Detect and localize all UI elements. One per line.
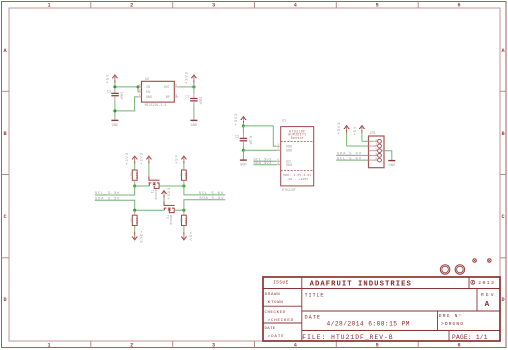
svg-text:U2: U2	[145, 78, 149, 82]
supply +3V3 arrow (JP1)	[338, 122, 349, 146]
wire SDA_5.0V	[184, 200, 225, 210]
svg-text:U1: U1	[282, 120, 286, 124]
supply +3V3 arrow (reg out)	[186, 71, 197, 86]
transistor Q1 BSS138	[149, 176, 160, 188]
wire VDD	[243, 126, 276, 146]
supply +5V arrow	[106, 74, 118, 84]
svg-text:>DATE: >DATE	[268, 334, 285, 339]
ground symbol (sensor)	[240, 150, 247, 167]
supply +5V arrow down (R4 bottom)	[181, 226, 191, 242]
svg-text:TITLE: TITLE	[305, 292, 324, 298]
svg-text:3: 3	[212, 3, 215, 9]
svg-text:5: 5	[376, 343, 379, 349]
capacitor C2	[185, 87, 201, 120]
wire SCL_5.0V	[184, 186, 225, 195]
mounting hole H2	[455, 265, 465, 275]
svg-text:6: 6	[457, 343, 460, 349]
svg-text:SCL_5.0V: SCL_5.0V	[337, 157, 362, 161]
svg-text:CHECKED: CHECKED	[265, 311, 286, 315]
svg-text:R1: R1	[130, 173, 134, 177]
IC U1 HTU21DF	[277, 120, 314, 192]
svg-text:B: B	[3, 131, 6, 137]
wire GND pin to C1 bottom	[115, 97, 138, 120]
svg-text:R4: R4	[179, 218, 183, 222]
op-amp U2 regulator MIC5225-3.3	[138, 78, 179, 107]
svg-text:>DRGNO: >DRGNO	[441, 321, 463, 327]
svg-text:C: C	[3, 214, 6, 220]
svg-text:SCL_3.3V: SCL_3.3V	[95, 192, 120, 196]
svg-text:4/28/2014 6:08:15 PM: 4/28/2014 6:08:15 PM	[327, 321, 410, 328]
supply +3V3 arrow (Q1 gate)	[141, 152, 152, 176]
svg-text:10uF: 10uF	[119, 92, 123, 100]
svg-text:5: 5	[376, 3, 379, 9]
svg-text:DATE: DATE	[305, 314, 321, 320]
ground symbol (left)	[111, 120, 118, 128]
svg-text:1: 1	[47, 343, 50, 349]
svg-text:EN: EN	[146, 91, 150, 95]
wire SDA_3v3	[254, 164, 277, 166]
wire SDA_3.3V	[95, 200, 165, 210]
wire Q2 drain to HV junction	[174, 209, 184, 211]
svg-text:2013: 2013	[478, 280, 494, 286]
mounting hole H1	[440, 265, 450, 275]
wire Q1 drain to HV junction	[159, 185, 184, 187]
svg-text:B: B	[501, 131, 504, 137]
connector JP1	[369, 132, 385, 168]
svg-text:C: C	[501, 214, 504, 220]
svg-text:+3V3: +3V3	[338, 122, 342, 135]
svg-text:SDA_3.3V: SDA_3.3V	[95, 198, 120, 202]
svg-text:GND: GND	[112, 124, 118, 128]
fiducial F1	[473, 259, 477, 263]
svg-text:+3V3: +3V3	[235, 113, 239, 126]
svg-text:SDA_5.0V: SDA_5.0V	[199, 197, 224, 201]
svg-text:DRAWN: DRAWN	[265, 293, 281, 297]
svg-text:KTOWN: KTOWN	[268, 301, 284, 305]
wire JP1 pin1	[362, 140, 369, 142]
svg-text:Sensor: Sensor	[291, 136, 304, 140]
svg-text:10K: 10K	[135, 173, 138, 179]
node junction at +5V/C1	[113, 85, 116, 88]
svg-text:R3: R3	[130, 218, 134, 222]
svg-text:SDA: SDA	[286, 164, 293, 168]
supply +3V3 arrow (Q2 gate)	[161, 187, 172, 201]
svg-text:+5V: +5V	[354, 126, 358, 136]
svg-text:GND: GND	[191, 124, 197, 128]
svg-text:BSS138: BSS138	[154, 190, 157, 200]
svg-text:BP: BP	[166, 96, 170, 100]
svg-text:BSS138: BSS138	[169, 215, 172, 225]
node junction GND	[242, 149, 245, 152]
svg-text:4: 4	[294, 343, 297, 349]
svg-text:+3V3: +3V3	[168, 187, 172, 200]
wire +5V to IN	[115, 83, 138, 92]
svg-text:DRG N°: DRG N°	[439, 313, 462, 319]
svg-text:IN: IN	[146, 86, 150, 90]
supply +5V arrow (JP1)	[354, 126, 365, 142]
node junction SCL LV	[133, 184, 136, 187]
svg-text:SCL_5.0V: SCL_5.0V	[199, 192, 224, 196]
svg-text:SDA_5.0V: SDA_5.0V	[337, 153, 362, 157]
wire SCL_3.3V	[95, 186, 150, 195]
capacitor C3	[235, 126, 252, 150]
svg-text:+5V: +5V	[106, 74, 110, 84]
svg-text:HTU21DF: HTU21DF	[282, 188, 296, 192]
svg-text:MIC5225-3.3: MIC5225-3.3	[145, 103, 167, 107]
node junction VDD	[242, 124, 245, 127]
resistor R3	[130, 210, 138, 225]
node junction SCL HV	[182, 184, 185, 187]
svg-text:10uF: 10uF	[198, 97, 202, 105]
svg-text:+5V: +5V	[176, 154, 180, 164]
svg-text:0.1uF: 0.1uF	[248, 136, 252, 145]
transistor Q2 BSS138	[164, 201, 175, 212]
node junction SDA LV	[133, 209, 136, 212]
ground symbol (JP1)	[388, 161, 395, 168]
svg-text:D: D	[3, 297, 6, 303]
svg-text:3: 3	[212, 343, 215, 349]
capacitor C1	[107, 88, 123, 111]
svg-text:+3V3: +3V3	[141, 152, 145, 165]
svg-text:+3V3: +3V3	[126, 152, 130, 165]
svg-text:T1: T1	[150, 190, 154, 194]
ground symbol (reg out)	[190, 120, 197, 128]
svg-text:VDD: 1.5V-3.6V: VDD: 1.5V-3.6V	[283, 174, 311, 177]
svg-text:OUT: OUT	[164, 86, 170, 90]
svg-text:10K: 10K	[184, 218, 187, 224]
svg-text:ADAFRUIT INDUSTRIES: ADAFRUIT INDUSTRIES	[310, 281, 412, 289]
svg-text:PAGE: 1/1: PAGE: 1/1	[452, 334, 488, 341]
supply +3V3 arrow (sensor)	[235, 113, 246, 126]
svg-text:GND: GND	[286, 150, 292, 154]
svg-text:C1: C1	[107, 91, 111, 95]
supply +5V arrow (R2 top)	[176, 154, 187, 170]
svg-text:10K: 10K	[135, 218, 138, 224]
resistor R1	[130, 170, 138, 186]
svg-text:10K: 10K	[184, 173, 187, 179]
wire SCL_5.0V to pin5	[336, 159, 368, 161]
svg-text:DATE: DATE	[265, 327, 276, 331]
svg-text:C3: C3	[235, 136, 239, 140]
svg-text:D: D	[501, 297, 504, 303]
svg-text:+5V: +5V	[187, 232, 191, 242]
svg-text:>CHECKED: >CHECKED	[268, 318, 294, 323]
wire SDA_5.0V to pin4	[336, 154, 368, 156]
svg-text:2: 2	[130, 3, 133, 9]
svg-text:GND: GND	[389, 164, 395, 168]
node junction SDA HV	[182, 209, 185, 212]
svg-text:C2: C2	[185, 96, 189, 100]
wire GND pin	[243, 149, 276, 151]
svg-text:FILE: HTU21DF_REV-B: FILE: HTU21DF_REV-B	[302, 334, 393, 341]
node junction OUT/C2	[192, 85, 195, 88]
svg-text:4: 4	[294, 3, 297, 9]
svg-text:ISSUE: ISSUE	[273, 281, 288, 286]
supply +3V3 arrow down (R3 bottom)	[132, 226, 142, 244]
wire pin3 to ground	[381, 151, 391, 160]
svg-text:SDA_3v3: SDA_3v3	[253, 162, 272, 166]
svg-text:REV: REV	[481, 292, 494, 298]
svg-text:+3V3: +3V3	[138, 231, 142, 244]
node junction at EN tie	[136, 85, 139, 88]
svg-text:2: 2	[130, 343, 133, 349]
node junction C1/GND	[113, 109, 116, 112]
fiducial F2	[487, 259, 491, 263]
wire SCL_3v3	[254, 160, 277, 162]
svg-text:R2: R2	[179, 173, 183, 177]
svg-text:T2: T2	[165, 215, 169, 219]
resistor R4	[179, 210, 187, 225]
svg-text:-40 - +125C: -40 - +125C	[286, 178, 308, 181]
svg-text:1: 1	[47, 3, 50, 9]
wire OUT to +3V3	[178, 86, 194, 88]
wire JP1 pin2	[347, 145, 369, 147]
svg-text:A: A	[485, 301, 490, 309]
resistor R2	[179, 170, 187, 186]
svg-text:+3V3: +3V3	[186, 71, 190, 84]
svg-text:GND: GND	[146, 96, 152, 100]
svg-text:6: 6	[457, 3, 460, 9]
supply +3V3 arrow (R1 top)	[126, 152, 137, 170]
svg-text:GND: GND	[240, 163, 246, 167]
